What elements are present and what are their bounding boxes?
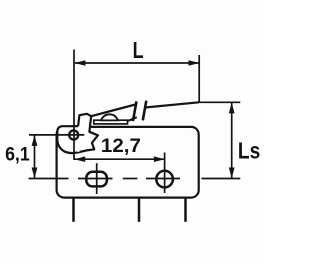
Ls down arrowhead [229, 168, 235, 179]
lever strip upper line [91, 105, 135, 117]
break mark stroke 2 [143, 101, 147, 121]
dimension Ls line [231, 102, 233, 178]
svg-text:Ls: Ls [238, 138, 260, 164]
pin 2 (middle terminal) [138, 198, 141, 222]
lever bar plate [94, 120, 128, 124]
12,7 left arrowhead [74, 156, 85, 162]
switch body [57, 127, 199, 198]
centre line dash a / 6,1 bottom tick [29, 178, 69, 180]
pin 1 (left terminal) [72, 198, 75, 222]
slot vertical centre line [96, 163, 98, 194]
pivot horizontal centre line / 6,1 top tick [29, 134, 84, 136]
actuator lever [78, 114, 98, 152]
right hole vertical centre line / 12,7 extension [164, 153, 166, 194]
dimension 12,7 line [74, 158, 165, 160]
L left arrowhead [75, 60, 86, 66]
dimension L line [75, 62, 199, 64]
rivet bump [101, 114, 118, 120]
pivot hole [69, 130, 78, 139]
Ls up arrowhead [229, 103, 235, 114]
centre line dash b [78, 178, 113, 180]
lever strip outer line [145, 102, 199, 107]
centre line dash c [123, 178, 138, 180]
dimension 6,1 line [34, 135, 36, 179]
6,1 up arrowhead [32, 135, 38, 146]
Ls top tick [199, 101, 240, 103]
pivot boss [57, 126, 80, 153]
L right arrowhead [189, 60, 200, 66]
break mark stroke 1 [133, 101, 137, 121]
svg-text:12,7: 12,7 [101, 135, 141, 157]
svg-text:L: L [133, 37, 144, 63]
centre line dash e / Ls bottom tick [202, 178, 241, 180]
svg-text:6,1: 6,1 [5, 143, 30, 165]
lever strip lower line [128, 117, 137, 121]
12,7 right arrowhead [154, 156, 165, 162]
L right extension line [198, 55, 200, 103]
pivot vertical centre line / L extension / 12,7 extension [73, 50, 75, 160]
mounting hole right [156, 171, 173, 188]
pin 3 (right terminal) [184, 198, 187, 222]
6,1 down arrowhead [32, 168, 38, 179]
mounting hole left (slot) [86, 172, 107, 187]
centre line dash d [146, 178, 180, 180]
